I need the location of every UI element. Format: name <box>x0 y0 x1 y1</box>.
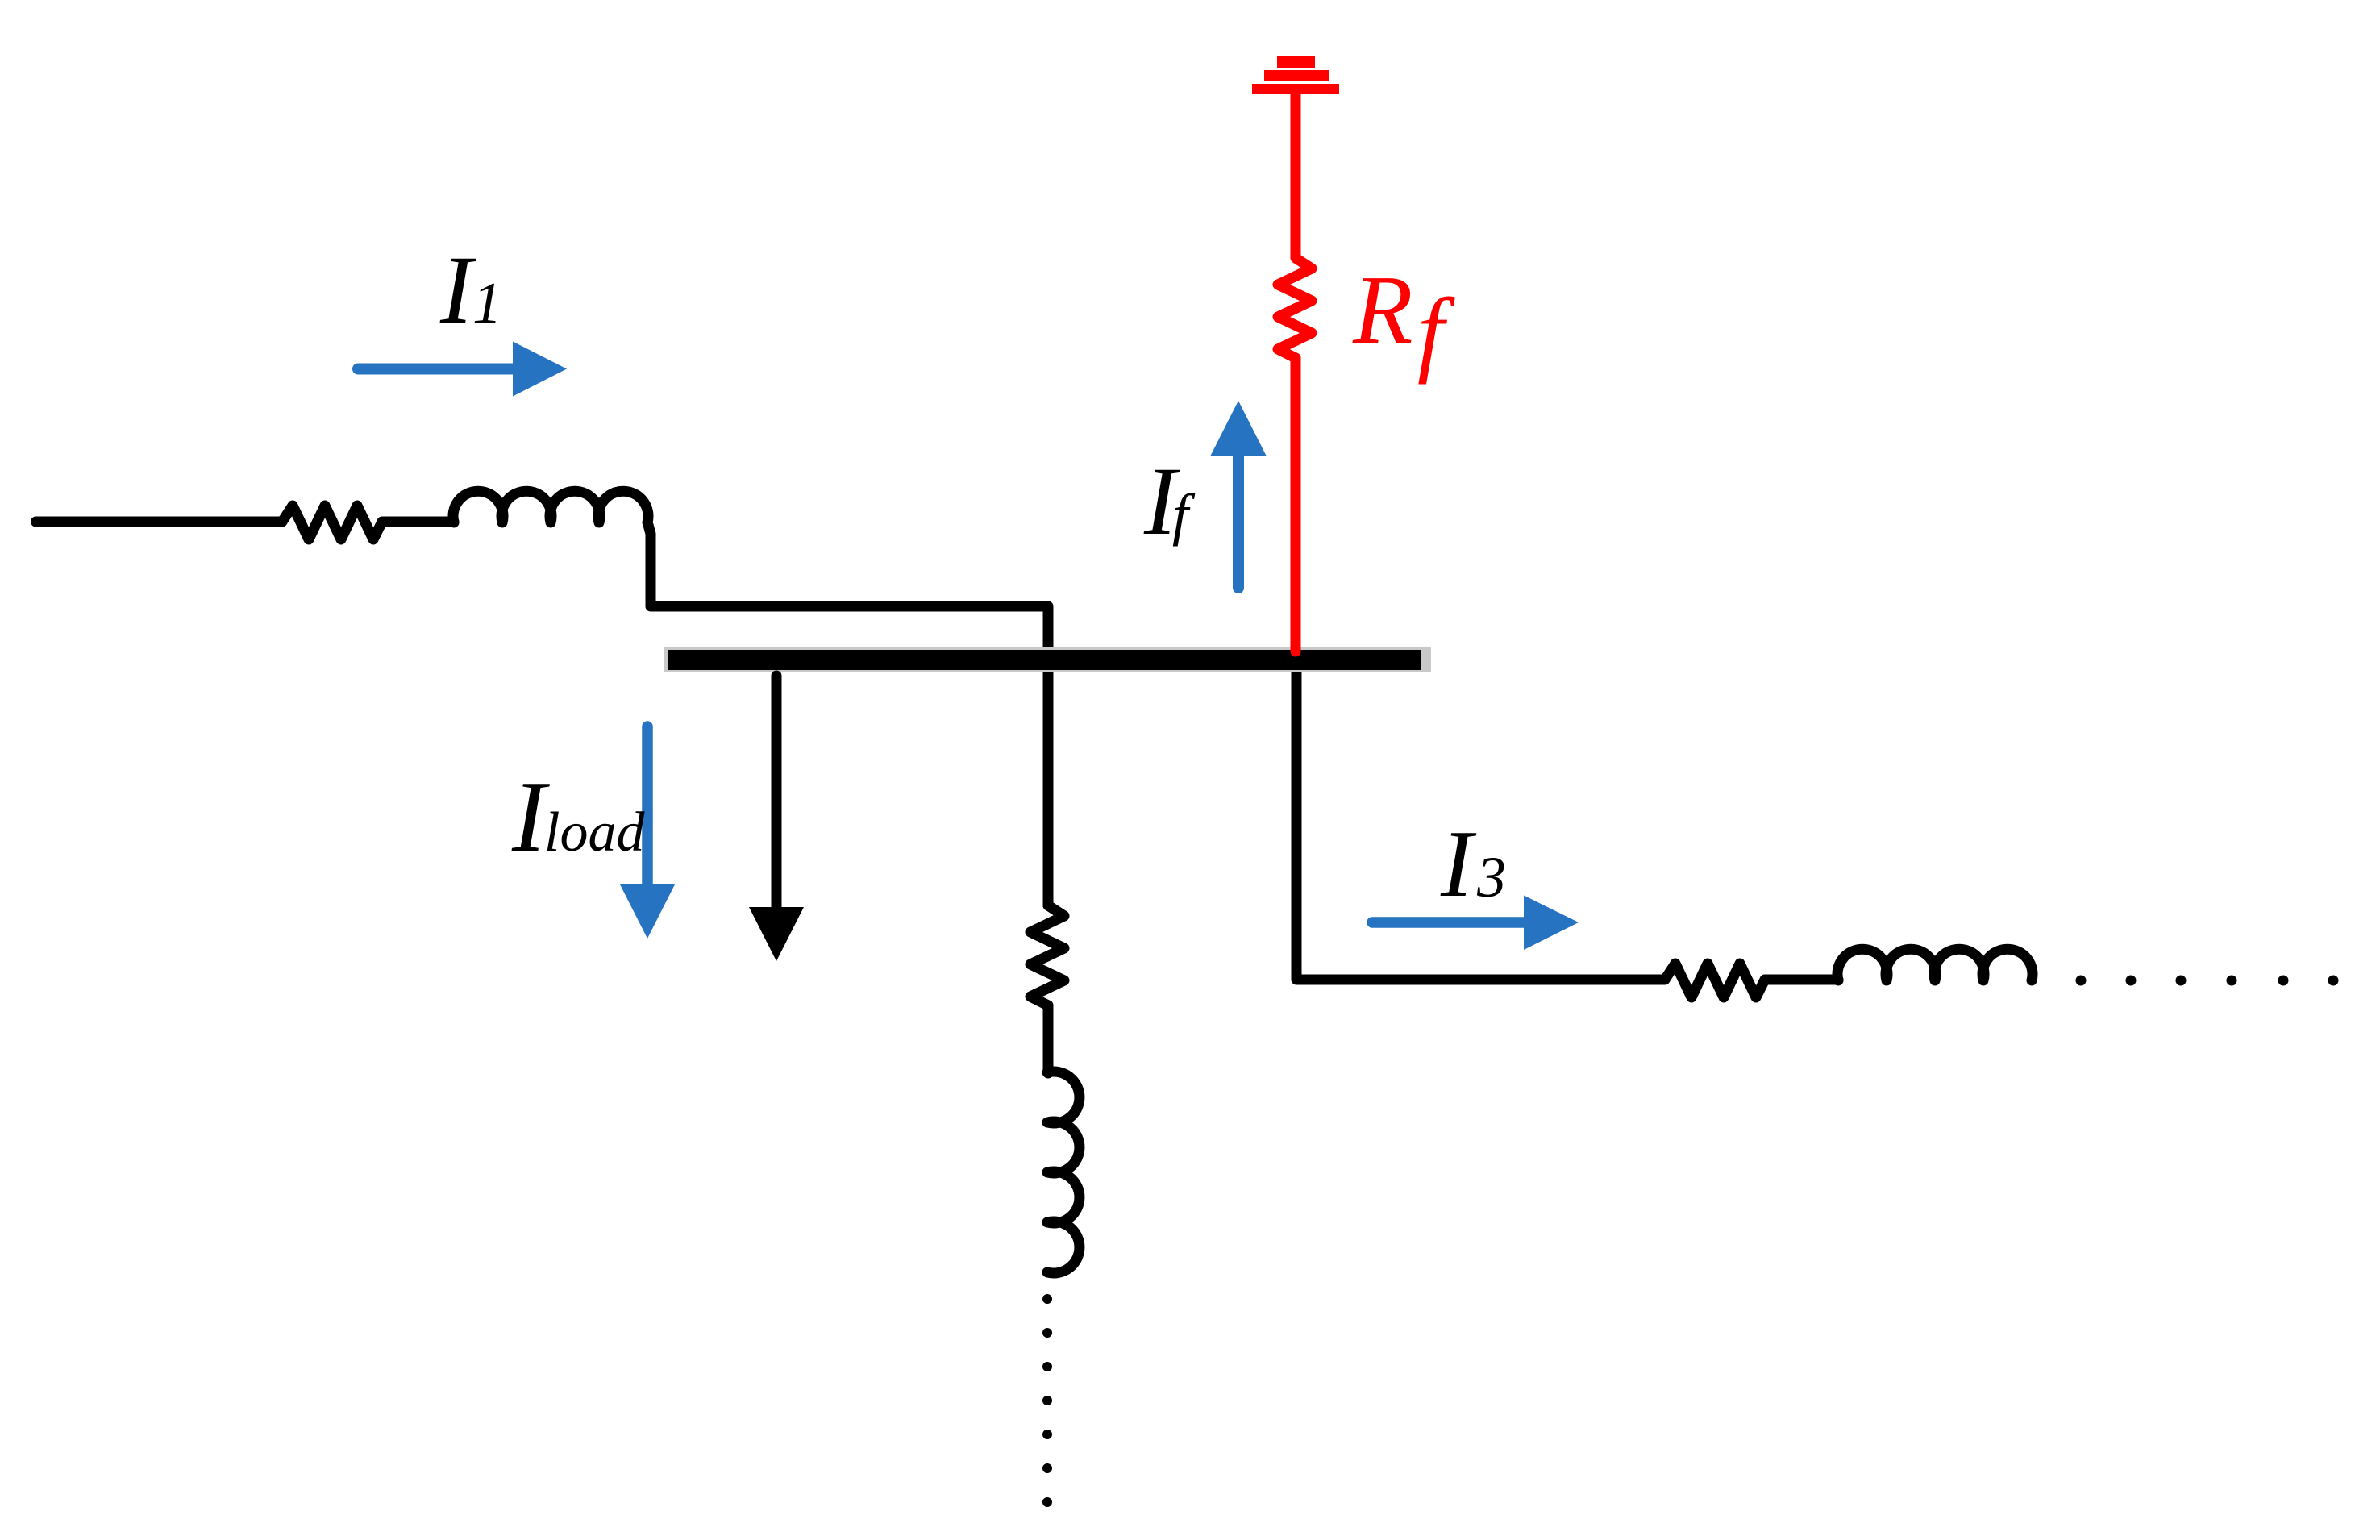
wire: drop from L1 to bus-level lead, then down through bus to load branch <box>648 525 1048 905</box>
inductor L3 (right feeder series inductance) <box>1837 949 2033 980</box>
resistor R1 (left feeder series resistance) <box>282 506 382 539</box>
current arrow I1 (blue, rightward) <box>358 364 514 375</box>
wire: between R3 and L3 <box>1765 975 1838 985</box>
svg-text:load: load <box>544 801 645 864</box>
bus bar (black body) <box>668 650 1421 670</box>
svg-text:I: I <box>439 236 477 344</box>
resistor Rf (fault resistance, red, vertical) <box>1278 258 1312 358</box>
inductor L1 (left feeder series inductance), then drop to bus level wire <box>453 491 648 522</box>
current arrow Iload (blue, downward) <box>642 726 653 885</box>
svg-text:3: 3 <box>1476 845 1506 909</box>
current arrow I3 (blue, rightward) <box>1372 917 1525 928</box>
wire: between R2 and L2 <box>1043 1005 1054 1073</box>
wire: between R1 and L1 <box>382 517 454 527</box>
bus bar (gray outline) <box>664 647 1431 672</box>
wire: left feeder horizontal lead <box>36 517 283 527</box>
load arrow (black, downward from bus) <box>772 676 782 909</box>
wire: red fault branch upper segment <box>1291 94 1301 258</box>
svg-text:1: 1 <box>472 270 502 335</box>
resistor R2 (load branch, vertical) <box>1030 905 1064 1005</box>
resistor R3 (right feeder series resistance) <box>1665 964 1765 997</box>
svg-text:R: R <box>1352 256 1413 364</box>
wire: right branch from bus down then right <box>1296 670 1665 980</box>
wire: red fault branch lower segment to bus (junction dot on bus) <box>1291 358 1301 651</box>
inductor L2 (load branch, vertical) <box>1047 1072 1080 1273</box>
current arrow If (blue, upward) <box>1233 456 1244 588</box>
svg-text:I: I <box>1440 810 1477 917</box>
ground (red, at top of fault branch) <box>1252 56 1339 94</box>
continuation dots (horizontal, right of L3) <box>2076 976 2339 986</box>
continuation dots (vertical, below L2) <box>1042 1294 1052 1507</box>
